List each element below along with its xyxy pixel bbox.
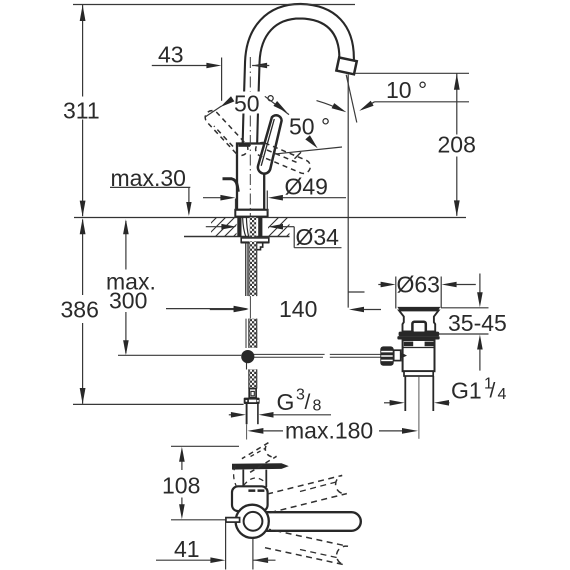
svg-text:311: 311	[63, 97, 100, 123]
svg-text:108: 108	[162, 473, 200, 499]
tick on dashed lever end	[295, 152, 302, 159]
top view: pull rod knob	[226, 518, 240, 523]
shank dark walls in deck hole	[237, 217, 241, 237]
braided hose segment 1	[249, 242, 257, 297]
deck hatching right	[258, 216, 307, 238]
dimension 208	[456, 73, 458, 134]
top view: lever bar pointing up (dark)	[232, 463, 289, 469]
hose break centerline	[249, 296, 251, 319]
clamp screw cone	[401, 352, 408, 358]
top view: solid lever pointing right	[252, 512, 361, 531]
countertop deck top line	[74, 217, 466, 219]
dimension 311	[82, 5, 84, 97]
extension lines for 63	[395, 277, 397, 309]
dimension 386	[82, 220, 84, 296]
svg-text:386: 386	[61, 297, 99, 323]
svg-text:50 °: 50 °	[234, 91, 275, 117]
top view: 108 reference lines	[171, 445, 239, 447]
deck hatching left	[196, 216, 254, 238]
svg-text:max.180: max.180	[285, 418, 373, 444]
svg-text:G1: G1	[451, 378, 482, 404]
body centerline	[249, 57, 251, 216]
bottom reference line of 386	[73, 403, 244, 405]
svg-text:300: 300	[109, 287, 147, 313]
pop-up waste main body	[403, 340, 435, 371]
top view: dashed lever position up	[242, 443, 277, 473]
spout gooseneck tube	[250, 11, 347, 143]
extension lines for 49	[235, 199, 237, 210]
tailpipe G1 1/4	[404, 376, 406, 411]
extension line for 43	[221, 58, 223, 101]
short tick on vertical reference	[348, 291, 364, 293]
svg-text:140: 140	[279, 296, 317, 322]
deck bottom line	[184, 236, 290, 238]
dimension max.180	[247, 428, 263, 434]
svg-text:Ø34: Ø34	[296, 224, 340, 250]
top view: faucet body	[232, 486, 268, 511]
mounting washer below deck	[241, 238, 269, 242]
svg-text:G: G	[277, 389, 295, 415]
hose end connector	[249, 389, 256, 398]
pop-up rod ball joint	[241, 350, 254, 363]
pull rod below deck	[245, 242, 247, 296]
top reference line	[73, 4, 355, 6]
top view: spout base circle	[236, 505, 269, 538]
knob collar	[394, 350, 401, 360]
svg-text:208: 208	[438, 132, 476, 158]
extension lines for 41	[225, 523, 227, 570]
body top seam bar	[238, 144, 250, 147]
mounting nut step	[256, 243, 262, 250]
vertical reference line from spout outlet	[347, 75, 349, 308]
pop-up waste top flange band	[397, 307, 440, 311]
label bracket for 34	[293, 227, 295, 248]
spout aerator outlet	[336, 57, 356, 74]
rod below ball	[246, 363, 248, 370]
leader from max.300 to hose break	[166, 308, 234, 310]
pop-up waste square knob	[412, 322, 425, 333]
top view: lever neck	[242, 470, 244, 487]
svg-text:35-45: 35-45	[448, 310, 507, 336]
svg-text:43: 43	[158, 41, 184, 67]
pop-up waste seal washers (black)	[399, 332, 440, 337]
svg-text:/: /	[305, 391, 311, 414]
reference line at pop-up rod level	[118, 354, 241, 356]
dimension 35-45	[441, 307, 489, 309]
svg-text:Ø49: Ø49	[285, 174, 328, 200]
faucet centerline lower	[246, 424, 248, 439]
svg-text:4: 4	[498, 386, 507, 403]
svg-text:41: 41	[174, 536, 200, 562]
extension line at spout outlet height	[355, 72, 469, 74]
dimension 108	[181, 460, 183, 470]
bayonet tabs	[404, 342, 413, 347]
svg-text:/: /	[490, 380, 496, 403]
connection tube below nut	[246, 404, 248, 424]
solid lever handle (side view)	[258, 115, 282, 173]
pop-up waste body (white flask shape)	[399, 310, 439, 331]
top view: dashed arc left of neck	[234, 466, 236, 486]
braid through deck	[250, 217, 257, 237]
knurled adjusting knob	[380, 346, 393, 365]
arc of 10 degree dimension	[317, 101, 343, 111]
faucet body cylinder	[237, 144, 264, 210]
hose curved lines in deck	[243, 217, 246, 237]
svg-text:8: 8	[313, 398, 322, 415]
dashed lever position up-left	[205, 111, 248, 156]
water stream tilted line 10deg	[346, 75, 357, 123]
waste lower flange	[404, 371, 433, 376]
top view: dashed lever position lower-right	[265, 529, 348, 564]
horizontal pop-up rod	[254, 354, 383, 357]
dashed lever position down-right	[256, 143, 311, 174]
base flange	[235, 210, 267, 217]
braided hose segment 3	[249, 369, 257, 388]
dimension max.300	[125, 221, 127, 270]
braided hose segment 2	[246, 319, 257, 348]
top view: dashed lever position upper-right	[266, 475, 347, 512]
svg-text:Ø63: Ø63	[397, 271, 440, 297]
G3/8 connection nut	[244, 398, 260, 404]
pull-rod hook on body	[223, 179, 239, 192]
svg-text:10 °: 10 °	[386, 77, 427, 103]
waste centerline	[418, 377, 420, 439]
